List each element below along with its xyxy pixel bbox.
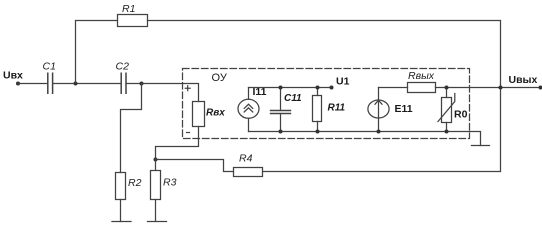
svg-text:R0: R0: [454, 109, 468, 121]
current source I11: [238, 86, 267, 118]
wire Rвых to output: [436, 87, 541, 89]
node B junction C2 output: [140, 82, 144, 86]
svg-text:R1: R1: [122, 3, 135, 15]
node R0 top: [445, 86, 449, 90]
node R0 bottom: [445, 130, 449, 134]
svg-text:ОУ: ОУ: [212, 72, 228, 84]
EMF source E11: [368, 88, 413, 132]
node output column junction: [499, 86, 503, 90]
svg-text:R2: R2: [128, 177, 142, 189]
svg-text:R3: R3: [163, 177, 177, 189]
node C11 top: [279, 86, 283, 90]
resistor R4: [234, 153, 263, 177]
resistor R0 variable: [438, 88, 468, 132]
node Uвх input terminal: [3, 70, 23, 86]
node A junction C1-C2: [74, 82, 78, 86]
resistor Rвх: [193, 102, 226, 127]
wire C1 to C2: [53, 83, 122, 85]
capacitor C2: [116, 61, 130, 94]
wire node C to R3: [155, 160, 157, 171]
resistor R1: [118, 3, 148, 27]
svg-text:R11: R11: [328, 103, 346, 114]
wire C2 to node B: [126, 83, 142, 85]
wire I11 bottom to bus: [248, 118, 250, 131]
svg-text:Rвых: Rвых: [408, 70, 435, 82]
op-amp U1 dashed box ОУ: [183, 69, 470, 139]
wire feedback top to output column: [148, 21, 501, 88]
node E11 bottom: [377, 130, 381, 134]
wire E11 top to Rвых: [379, 87, 408, 89]
svg-text:C2: C2: [116, 61, 130, 73]
wire U1 rail: [249, 87, 332, 89]
wire R3 to ground: [155, 200, 157, 222]
svg-text:R4: R4: [239, 153, 253, 165]
wire common bus: [249, 132, 481, 146]
node R11 top: [316, 86, 320, 90]
node Uвых output terminal: [509, 74, 542, 90]
svg-text:E11: E11: [395, 103, 413, 115]
node U1 terminal: [330, 76, 350, 90]
svg-text:Rвх: Rвх: [206, 108, 225, 119]
ground internal: [472, 145, 490, 147]
node C junction R3-R4: [154, 158, 158, 162]
svg-text:Uвх: Uвх: [3, 70, 23, 82]
ground under R3: [148, 221, 167, 223]
svg-text:U1: U1: [336, 76, 350, 88]
wire node B to R2: [121, 84, 142, 173]
node C11 bottom: [279, 130, 283, 134]
wire Rвх bottom to node C: [156, 127, 199, 160]
capacitor C11: [271, 88, 303, 132]
svg-text:C1: C1: [43, 61, 56, 73]
wire node B into op-amp: [142, 84, 199, 102]
wire R4 to output column: [263, 88, 501, 172]
ground under R2: [112, 221, 131, 223]
node R11 bottom: [316, 130, 320, 134]
wire feedback up-left: [76, 21, 118, 84]
resistor Rвых: [408, 70, 436, 93]
wire I11 top to U1 rail: [248, 88, 250, 100]
wire input to C1: [18, 83, 48, 85]
capacitor C1: [43, 61, 56, 94]
wire node C to R4: [156, 160, 234, 172]
svg-text:C11: C11: [284, 93, 302, 104]
svg-text:Uвых: Uвых: [509, 74, 538, 86]
resistor R3: [151, 171, 177, 200]
resistor R2: [116, 173, 142, 200]
wire R2 to ground: [120, 200, 122, 222]
resistor R11: [313, 88, 346, 132]
